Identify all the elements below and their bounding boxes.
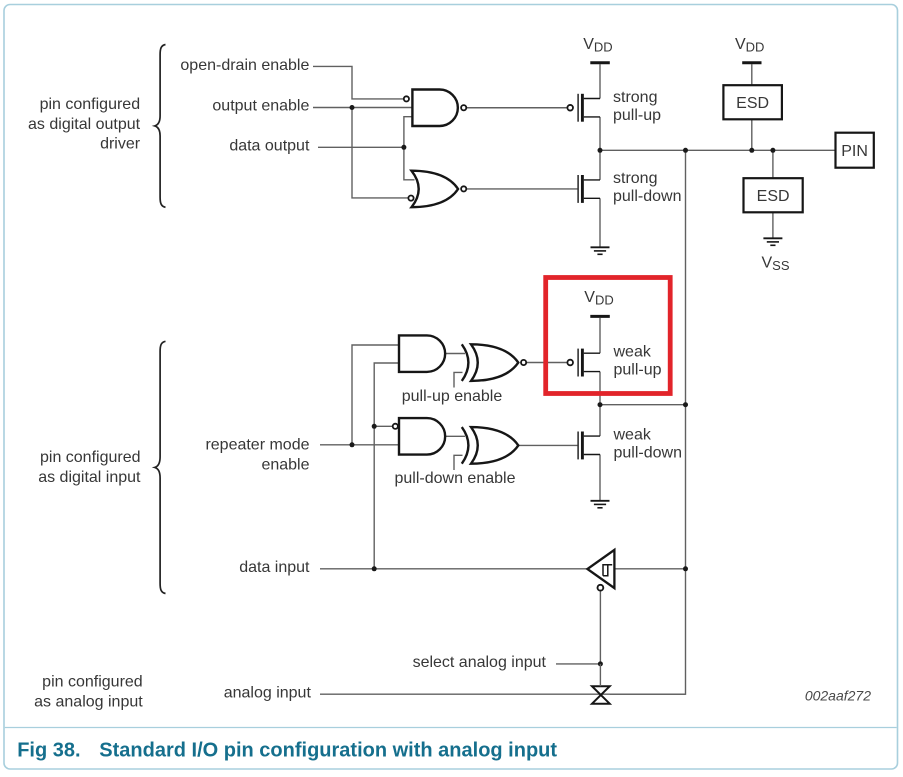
wire select vertical to bowtie (599, 664, 601, 686)
buffer U1 schmitt trigger (587, 550, 614, 591)
wire weak pull-down source to ground (599, 455, 601, 501)
svg-text:driver: driver (100, 136, 141, 153)
svg-text:pull-up: pull-up (614, 362, 662, 379)
node ESD1 junction (749, 148, 754, 153)
wire data output (318, 146, 404, 148)
wire weak node horizontal (600, 404, 686, 406)
svg-text:pin configured: pin configured (40, 96, 141, 113)
wire weak pull-down drain (599, 405, 601, 436)
wire strong pull-down source to ground (599, 198, 601, 247)
svg-text:weak: weak (613, 344, 652, 361)
wire weak pull-up drain to VDD (599, 318, 601, 353)
node buffer input junction (683, 566, 688, 571)
wire buffer enable down to select line (599, 591, 601, 664)
node select analog junction (598, 661, 603, 666)
node dots (350, 105, 776, 666)
wire long vertical pin node down to analog line (610, 150, 686, 694)
node ESD2 junction (770, 148, 775, 153)
NOR1 input bubble (408, 196, 413, 201)
ground weak pull-down (591, 501, 610, 508)
red highlight rectangle (546, 278, 671, 394)
wire pin node horizontal to PIN box (600, 149, 836, 151)
wire buffer input from long vertical (614, 568, 685, 570)
NAND1 input bubble (404, 96, 409, 101)
VDD bar ESD1 (742, 61, 761, 64)
wire data input feedback vertical to AND1 bottom input (374, 363, 399, 569)
VDD bar strong pull-up (590, 61, 610, 64)
gate AND1 (399, 335, 445, 372)
svg-text:pull-down enable: pull-down enable (395, 470, 516, 487)
PIN box (836, 133, 874, 168)
wire strong pull-up drain to VDD (599, 64, 601, 98)
wire analog input line (320, 693, 686, 695)
wire AND2 output to XOR2 input (445, 435, 465, 437)
caption separator line (5, 727, 897, 729)
wire XOR2 output to weak pull-down gate (518, 444, 577, 446)
brace digital output (155, 45, 166, 208)
wire strong pull-down drain to pin node (599, 150, 601, 180)
wire NOR output to strong pull-down gate (467, 188, 577, 190)
svg-text:Standard I/O pin configuration: Standard I/O pin configuration with anal… (99, 740, 557, 762)
node repeater junction (350, 442, 355, 447)
VDD bar weak pull-up (590, 315, 610, 318)
svg-text:VDD: VDD (584, 289, 613, 308)
svg-text:pin configured: pin configured (42, 674, 143, 691)
svg-text:ESD: ESD (757, 188, 790, 205)
svg-text:VDD: VDD (583, 36, 612, 55)
wire data input line to buffer tip (320, 568, 587, 570)
svg-text:002aaf272: 002aaf272 (805, 688, 871, 704)
transistor weak pull-down NMOS (578, 432, 600, 460)
svg-text:pull-down: pull-down (613, 188, 681, 205)
node weak pullup source junction (598, 402, 603, 407)
svg-text:weak: weak (613, 427, 652, 444)
svg-text:ESD: ESD (736, 95, 769, 112)
node data output junction (401, 145, 406, 150)
transistor weak pull-up PMOS (567, 349, 600, 377)
node weak node right junction (683, 402, 688, 407)
svg-text:repeater mode: repeater mode (205, 437, 309, 454)
transistor strong pull-down NMOS (578, 175, 600, 203)
svg-text:VDD: VDD (735, 36, 764, 55)
svg-text:enable: enable (261, 456, 309, 473)
node data input junction (372, 566, 377, 571)
wire branch to AND2 bubble input (374, 425, 392, 427)
analog switch bowtie (592, 686, 610, 704)
gate XOR2 (462, 427, 519, 464)
NAND1 output bubble (461, 105, 466, 110)
wire pull-up enable stub (454, 372, 463, 387)
gate AND2 (399, 418, 445, 455)
svg-text:Fig 38.: Fig 38. (17, 740, 80, 762)
svg-text:strong: strong (613, 89, 657, 106)
svg-text:pull-up: pull-up (613, 107, 661, 124)
wire repeater mode enable to AND2 bottom input (352, 444, 399, 446)
NOR1 output bubble (461, 186, 466, 191)
brace digital input (155, 341, 166, 593)
wire AND1 output to XOR1 input (445, 353, 465, 355)
svg-text:PIN: PIN (841, 143, 868, 160)
wire data output vertical NAND lower input to NOR top input (404, 117, 415, 180)
node output enable junction (350, 105, 355, 110)
wire open-drain enable to NAND bubble (313, 66, 403, 99)
gate NAND1 (412, 90, 457, 127)
node strong drain junction (598, 148, 603, 153)
svg-text:open-drain enable: open-drain enable (180, 57, 309, 74)
wire ESD to pin node (751, 119, 753, 150)
wire output enable to NAND middle input (313, 107, 412, 109)
AND2 input bubble (393, 424, 398, 429)
gate NOR1 (412, 171, 459, 208)
wire strong pull-up source to pin node (599, 117, 601, 150)
svg-text:strong: strong (613, 170, 657, 187)
ground VSS (763, 238, 782, 245)
node pin line / long vertical junction (683, 148, 688, 153)
wire output enable down to NOR lower input (352, 108, 408, 198)
wire NAND output to strong pull-up gate (467, 107, 567, 109)
ESD box top (723, 85, 782, 119)
wire XOR1 bubble to weak pull-up gate (527, 362, 567, 364)
svg-text:as analog input: as analog input (34, 693, 143, 710)
wire select analog input (556, 663, 600, 665)
wire weak pull-up source to weak node (599, 372, 601, 405)
transistor strong pull-up PMOS (567, 94, 600, 122)
ground strong pull-down (591, 247, 610, 254)
gate XOR1 (462, 344, 519, 381)
svg-text:data input: data input (239, 559, 310, 576)
svg-text:as digital input: as digital input (38, 469, 141, 486)
wire pin node to ESD2 (772, 150, 774, 178)
XOR1 output bubble (521, 360, 526, 365)
svg-text:pull-down: pull-down (614, 444, 682, 461)
svg-text:pin configured: pin configured (40, 449, 141, 466)
svg-text:VSS: VSS (762, 255, 790, 274)
svg-text:select analog input: select analog input (413, 654, 547, 671)
svg-text:data output: data output (229, 138, 310, 155)
ESD box bottom (744, 178, 803, 212)
wire VDD to ESD top (751, 64, 753, 85)
wire repeater mode enable up to AND1 top input (320, 345, 399, 445)
svg-text:as digital output: as digital output (28, 116, 141, 133)
svg-text:pull-up enable: pull-up enable (402, 388, 503, 405)
wire ESD2 to VSS ground (772, 212, 774, 238)
wire pull-down enable stub (454, 455, 463, 470)
svg-text:output enable: output enable (212, 98, 309, 115)
svg-text:analog input: analog input (224, 685, 312, 702)
node feedback branch junction (372, 424, 377, 429)
